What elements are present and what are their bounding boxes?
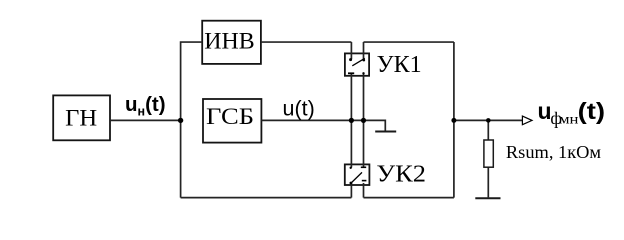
svg-text:ГСБ: ГСБ: [206, 104, 254, 129]
svg-text:(t): (t): [578, 98, 606, 124]
svg-text:u(t): u(t): [283, 97, 315, 121]
svg-text:ГН: ГН: [65, 106, 97, 131]
svg-text:ИНВ: ИНВ: [204, 29, 254, 54]
svg-text:uн(t): uн(t): [125, 93, 166, 119]
svg-text:Rsum, 1кОм: Rsum, 1кОм: [506, 142, 602, 162]
svg-text:УК2: УК2: [376, 161, 426, 187]
svg-text:УК1: УК1: [377, 52, 422, 78]
svg-text:мн: мн: [559, 113, 579, 128]
